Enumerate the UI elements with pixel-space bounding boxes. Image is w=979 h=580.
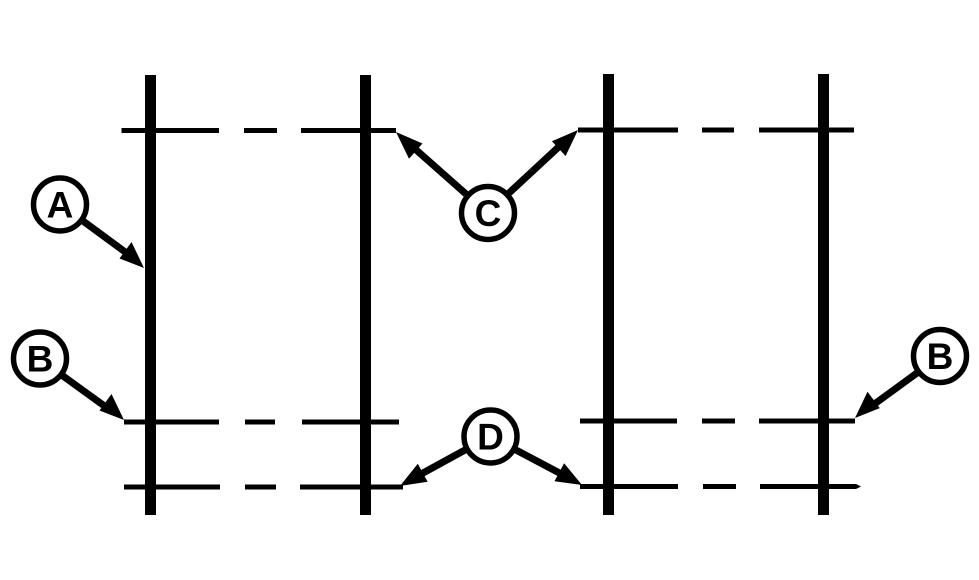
callout C right arrow — [509, 130, 578, 193]
callout C circle — [462, 187, 515, 240]
wire: bottom dashed line (D level) left portion — [124, 485, 403, 490]
wire: top dashed line left portion — [122, 128, 397, 133]
callout A circle — [34, 178, 87, 231]
callout B right arrow — [855, 373, 917, 418]
callout D left arrow — [400, 450, 465, 486]
wire: top dashed line right portion — [578, 128, 854, 133]
wire: vertical rail 1 — [145, 75, 156, 515]
wire: middle dashed line (B level) right portion — [580, 419, 855, 424]
svg-text:C: C — [475, 193, 502, 234]
svg-text:A: A — [47, 185, 74, 226]
callout B left circle — [14, 332, 67, 385]
callout D right arrow — [516, 450, 582, 485]
wire: vertical rail 3 — [603, 74, 614, 515]
wire: vertical rail 2 — [360, 75, 371, 515]
wire: middle dashed line (B level) left portion — [124, 420, 399, 425]
svg-text:B: B — [27, 339, 54, 380]
wire: vertical rail 4 — [818, 74, 829, 515]
callout D circle — [464, 410, 517, 463]
callout A arrow — [83, 221, 144, 268]
callout B left arrow — [63, 376, 124, 420]
svg-text:D: D — [477, 417, 504, 458]
svg-text:B: B — [927, 336, 954, 377]
callout C left arrow — [396, 132, 466, 194]
wire: bottom dashed line (D level) right portion — [580, 484, 861, 489]
callout B right circle — [914, 330, 967, 383]
